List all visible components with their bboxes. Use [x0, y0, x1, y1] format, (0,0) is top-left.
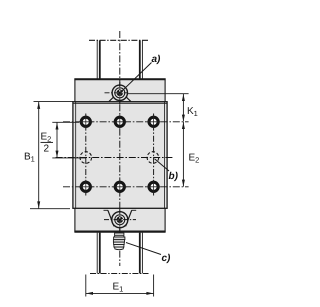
mounting hole B2	[115, 182, 124, 191]
body bottom edge (thick)	[74, 231, 165, 233]
plate inner edge line left	[75, 102, 77, 208]
top fitting horizontal centerline	[105, 92, 128, 94]
top lube fitting boss	[109, 97, 131, 102]
optional hole left (dashed)	[80, 152, 92, 164]
svg-text:2: 2	[44, 144, 50, 155]
bottom lube fitting center	[117, 216, 124, 223]
dimension E1 extension left	[85, 275, 87, 297]
dimension E2/2 line	[56, 123, 58, 158]
saddle plate	[73, 102, 167, 209]
top rail lines	[96, 40, 98, 78]
leader a	[122, 63, 152, 92]
row centerline 3	[63, 186, 189, 188]
leader b	[155, 159, 170, 171]
top fitting vertical centerline overlay	[119, 82, 121, 104]
bottom fitting horizontal centerline	[104, 219, 136, 221]
row centerline 2	[56, 157, 173, 159]
dimension E2 line	[182, 122, 184, 187]
dimension E2/2 extension top	[52, 121, 79, 123]
bottom lube fitting middle circle	[115, 215, 125, 225]
main vertical centerline	[119, 31, 121, 266]
dimension E1 line	[86, 292, 153, 294]
mounting hole A2	[115, 117, 124, 126]
column centerline left	[85, 114, 87, 196]
dimension E2/2 extension bottom	[52, 157, 86, 159]
mounting hole A3	[149, 117, 158, 126]
plate top edge doubled	[73, 102, 167, 104]
body top edge (thick)	[74, 78, 165, 80]
hole centre crosses	[79, 115, 161, 194]
dimension E1 extension right	[153, 275, 155, 297]
mounting hole B3	[149, 182, 158, 191]
mounting hole B1	[81, 182, 90, 191]
mounting hole A1	[81, 117, 90, 126]
dimension B1 line	[38, 102, 40, 208]
top lube fitting center	[117, 90, 124, 97]
row centerline 1	[63, 121, 189, 123]
column centerline right	[153, 114, 155, 196]
top rail phantom line	[89, 39, 149, 41]
bottom lube fitting boss	[108, 210, 132, 226]
optional hole right (dashed)	[147, 152, 159, 164]
bottom fitting vertical centerline overlay	[119, 209, 121, 231]
top lube fitting middle circle	[115, 88, 125, 98]
carriage body (upper and lower flange bands)	[75, 79, 165, 232]
bottom rail lines	[96, 233, 98, 274]
plate inner edge line right	[164, 102, 166, 208]
svg-text:b): b)	[169, 171, 179, 182]
bottom lube fitting outer circle	[112, 212, 128, 228]
svg-text:a): a)	[152, 54, 162, 65]
dimension K1 extension (nipple axis)	[128, 93, 189, 95]
top lube fitting outer circle	[112, 85, 127, 100]
leader c	[126, 243, 161, 255]
svg-text:c): c)	[162, 253, 172, 264]
bottom rail phantom line	[90, 273, 149, 275]
dimension B1 extension bottom	[30, 208, 70, 210]
dimension K1 line	[182, 94, 184, 122]
lower boss shoulder line	[104, 209, 109, 211]
dimension B1 extension top	[34, 101, 74, 103]
grease nipple side view	[113, 233, 125, 250]
